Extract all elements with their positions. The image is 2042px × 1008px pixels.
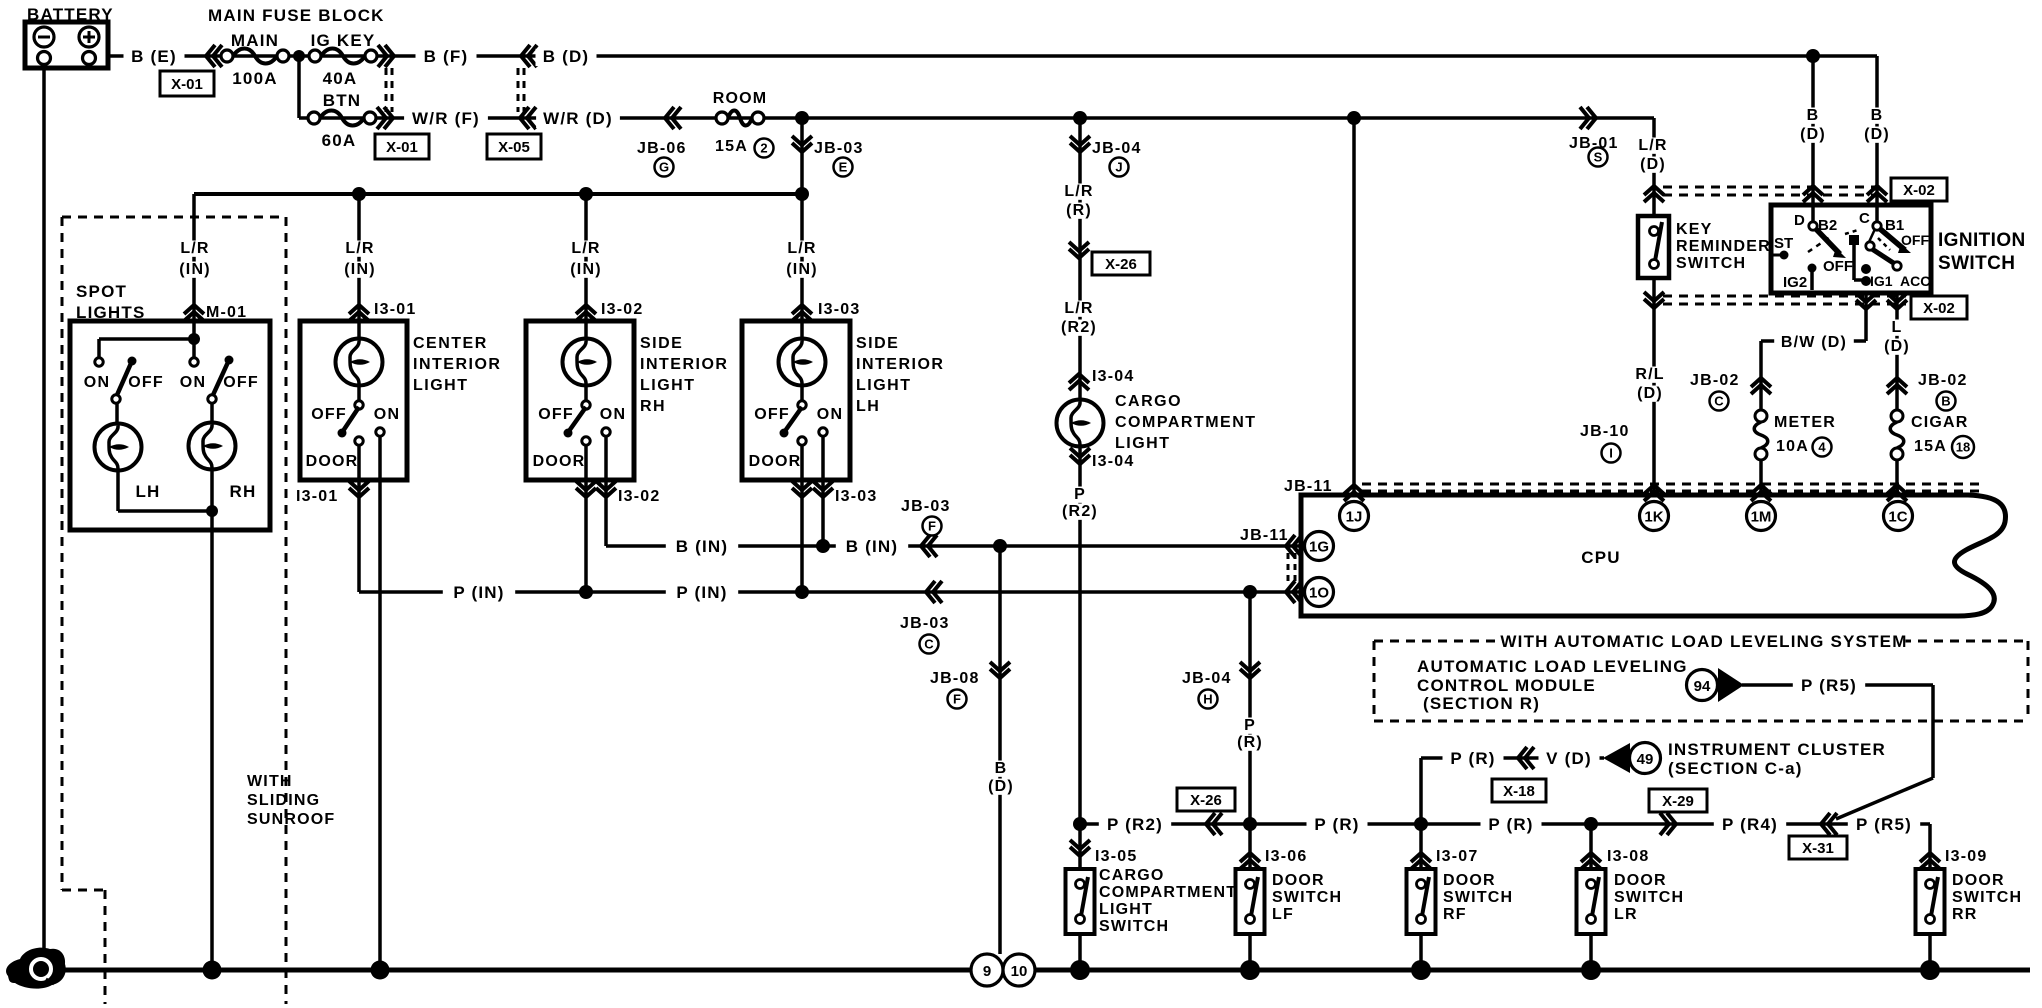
svg-text:B (IN): B (IN) [676, 537, 729, 556]
svg-text:18: 18 [1956, 440, 1970, 455]
svg-text:CPU: CPU [1581, 548, 1621, 567]
svg-text:ON: ON [600, 406, 626, 423]
circled F [923, 517, 942, 536]
svg-text:C: C [924, 637, 934, 652]
svg-text:G: G [659, 160, 669, 175]
svg-text:CENTER: CENTER [413, 335, 488, 352]
svg-text:L/R: L/R [180, 240, 209, 257]
junction arrow JB-01 (S) [1580, 107, 1596, 129]
dashed option box left edge [61, 217, 64, 890]
svg-text:10A: 10A [1776, 438, 1809, 455]
label W/R (F) [404, 111, 488, 128]
svg-text:DOOR: DOOR [749, 453, 802, 470]
connector chevron I3-02 bottom [576, 481, 596, 497]
spot RH switch to lamp [210, 403, 214, 423]
junction dot CPU 1J feed [1347, 111, 1361, 125]
label B (F) [416, 49, 477, 66]
svg-text:JB-03: JB-03 [901, 498, 951, 515]
fuse METER 10A [1754, 422, 1768, 448]
label L/R (IN) i3-01 [342, 241, 378, 257]
svg-text:P (R5): P (R5) [1801, 676, 1857, 695]
svg-text:JB-04: JB-04 [1092, 140, 1142, 157]
wire load leveling module P(R5) row [1742, 683, 1933, 687]
wire ignition IG1 to B/W(D) corner [1864, 292, 1868, 341]
connector chevron JB-11 1J [1344, 485, 1364, 501]
svg-text:M-01: M-01 [206, 304, 247, 321]
svg-text:I3-03: I3-03 [818, 301, 860, 318]
connector chevron X-26 upper [1069, 242, 1089, 258]
junction dot P(IN) x802 [795, 585, 809, 599]
circled C (jb-02) [1710, 392, 1729, 411]
svg-text:10: 10 [1011, 963, 1028, 980]
svg-text:DOOR: DOOR [306, 453, 359, 470]
connector chevron M-01 [184, 305, 204, 321]
door switch RF [1407, 869, 1436, 934]
fuse CIGAR 15A [1890, 422, 1904, 448]
svg-text:1G: 1G [1309, 539, 1329, 556]
svg-text:WITH: WITH [247, 773, 293, 790]
connector chevron X-31 [1821, 813, 1837, 835]
wire fuse block internal drop [297, 56, 301, 118]
svg-text:CONTROL MODULE: CONTROL MODULE [1417, 676, 1596, 695]
connector chevron I3-04 top [1069, 374, 1089, 390]
label P (R) row 2 [1481, 817, 1542, 834]
svg-text:SIDE: SIDE [640, 335, 683, 352]
svg-text:P (R2): P (R2) [1107, 815, 1163, 834]
wire B(IN) row y546 [606, 544, 1304, 548]
svg-text:JB-08: JB-08 [930, 670, 980, 687]
side LH switch [798, 401, 806, 409]
svg-text:LIGHT: LIGHT [413, 377, 469, 394]
svg-text:J: J [1115, 160, 1122, 175]
ignition terminal IG2 [1808, 264, 1817, 273]
wire P(R2)/P(R)/P(R4)/P(R5) row y824 [1080, 822, 1930, 826]
svg-text:D: D [1794, 212, 1805, 229]
ignition terminal C [1873, 222, 1881, 230]
connector X-18 box [1492, 779, 1546, 802]
junction dot B(D) [1806, 49, 1820, 63]
center interior light box [300, 321, 407, 480]
circled S [1589, 148, 1608, 167]
wire cargo lamp to P(R2) junction [1078, 447, 1082, 869]
svg-text:COMPARTMENT: COMPARTMENT [1099, 884, 1237, 901]
label L/R (IN) i3-03 [784, 241, 820, 257]
svg-text:LR: LR [1614, 906, 1638, 923]
svg-text:OFF: OFF [128, 374, 164, 391]
circled 2 [755, 139, 774, 158]
connector chevron I3-05 [1070, 840, 1090, 856]
svg-text:DOOR: DOOR [1443, 872, 1496, 889]
svg-text:(D): (D) [1884, 338, 1910, 355]
junction dot fuse block [293, 50, 305, 62]
circled 94 [1687, 670, 1718, 701]
svg-text:JB-02: JB-02 [1918, 372, 1968, 389]
wire door switch RF to ground bus [1419, 934, 1423, 970]
svg-text:C: C [1714, 394, 1724, 409]
circled H [1199, 690, 1218, 709]
svg-text:V (D): V (D) [1546, 749, 1592, 768]
svg-text:INTERIOR: INTERIOR [856, 356, 944, 373]
circled I [1602, 444, 1621, 463]
junction arrow JB-03 (F) [921, 535, 937, 557]
svg-text:OFF: OFF [223, 374, 259, 391]
svg-text:I3-02: I3-02 [601, 301, 643, 318]
fuse BTN 60A [320, 111, 364, 126]
circled 4 [1813, 438, 1832, 457]
wire battery B(E) feed row y56 [108, 54, 299, 58]
circled B (jb-02) [1937, 392, 1956, 411]
fuse ROOM 15A [728, 111, 752, 126]
connector chevron I3-03 bottom [792, 481, 812, 497]
junction dot room fuse output [795, 111, 809, 125]
wire door switch RR to ground bus [1928, 934, 1932, 970]
wire side LH DOOR drop to P(IN) [800, 445, 804, 592]
connector chevron X-02 key reminder lower [1644, 292, 1664, 308]
fuse MAIN 100A [233, 49, 277, 64]
label B/W (D) [1774, 335, 1854, 351]
svg-text:P (R): P (R) [1450, 749, 1495, 768]
junction dot bus x380 [371, 961, 390, 980]
connector X-01 box (right) [375, 134, 429, 159]
svg-text:MAIN: MAIN [231, 31, 279, 50]
ground symbol body earth [6, 948, 66, 989]
svg-text:LH: LH [135, 482, 160, 501]
ignition linkage dashes [1808, 237, 1830, 252]
circled C (jb-03) [920, 635, 939, 654]
connector X-01 box (left) [160, 71, 214, 96]
label V (D) [1539, 751, 1600, 768]
svg-text:P (R5): P (R5) [1856, 815, 1912, 834]
wire ground bus [30, 968, 2030, 973]
connector chevron I3-06 [1240, 853, 1260, 869]
svg-text:I3-02: I3-02 [618, 488, 660, 505]
wire L/R spot-light feed drop x802 upper [800, 118, 804, 405]
svg-text:JB-11: JB-11 [1240, 527, 1289, 544]
svg-text:OFF: OFF [311, 406, 347, 423]
wire B(D) drop to ignition switch terminal C [1875, 56, 1879, 226]
junction arrow JB-04 (H) [1240, 662, 1260, 678]
connector chevron JB-02 cigar [1887, 378, 1907, 394]
svg-text:OFF: OFF [1823, 258, 1853, 275]
cpu terminal 1J [1340, 502, 1369, 531]
svg-text:INTERIOR: INTERIOR [640, 356, 728, 373]
svg-text:JB-04: JB-04 [1182, 670, 1232, 687]
connector chevron to B(F) [378, 45, 394, 67]
svg-text:1J: 1J [1346, 509, 1363, 526]
svg-text:DOOR: DOOR [1272, 872, 1325, 889]
arrow triangle instrument cluster [1603, 743, 1630, 773]
svg-text:1M: 1M [1751, 509, 1772, 526]
label B (E) [124, 49, 185, 66]
label B (IN) left [666, 539, 738, 556]
junction dot bus x1591 [1581, 960, 1601, 980]
label L/R (D) [1635, 138, 1671, 154]
svg-text:9: 9 [983, 963, 991, 980]
spot LH switch [95, 358, 103, 366]
svg-text:RH: RH [230, 482, 257, 501]
connector X-05 box [487, 134, 541, 159]
svg-text:IGNITION: IGNITION [1938, 230, 2026, 251]
ignition terminal ST [1771, 254, 1782, 257]
connector chevron X-29 [1660, 813, 1676, 835]
svg-text:WITH AUTOMATIC LOAD LEVELING S: WITH AUTOMATIC LOAD LEVELING SYSTEM [1500, 632, 1907, 651]
connector chevron JB-11 1G [1286, 535, 1302, 557]
svg-text:X-31: X-31 [1802, 840, 1834, 857]
dashed option box - with sliding sunroof (top) [62, 216, 286, 219]
junction arrow JB-08 (F) [990, 662, 1010, 678]
ignition rotor circle [1866, 242, 1874, 250]
svg-text:DOOR: DOOR [1952, 872, 2005, 889]
svg-text:COMPARTMENT: COMPARTMENT [1115, 414, 1257, 431]
svg-text:BTN: BTN [323, 91, 362, 110]
wire center interior light drop x359 [357, 194, 361, 405]
label B (D) drop [994, 761, 1009, 777]
svg-text:JB-03: JB-03 [900, 615, 950, 632]
connector X-02 box lower [1911, 296, 1967, 319]
svg-text:(R): (R) [1066, 202, 1092, 219]
svg-text:INSTRUMENT CLUSTER: INSTRUMENT CLUSTER [1668, 740, 1886, 759]
svg-text:15A: 15A [1914, 438, 1947, 455]
svg-text:60A: 60A [322, 131, 357, 150]
wire side interior RH drop x586 [584, 194, 588, 405]
svg-text:JB-10: JB-10 [1580, 423, 1630, 440]
cpu terminal 1O [1305, 578, 1334, 607]
wire interior light feed bus y194 [194, 192, 802, 196]
svg-text:(D): (D) [1800, 126, 1826, 143]
svg-text:C: C [1859, 210, 1870, 227]
svg-text:IG2: IG2 [1783, 274, 1807, 291]
svg-text:B: B [1807, 107, 1820, 124]
svg-text:I3-03: I3-03 [835, 488, 877, 505]
wire L/R(D) key reminder switch drop [1652, 118, 1656, 216]
svg-text:(IN): (IN) [786, 261, 817, 278]
svg-text:P: P [1074, 486, 1086, 503]
wire B/W(D) horizontal [1761, 339, 1866, 343]
wire battery negative to body ground [42, 66, 46, 970]
svg-text:94: 94 [1694, 678, 1711, 695]
svg-text:X-26: X-26 [1105, 256, 1137, 273]
svg-text:B (F): B (F) [424, 47, 469, 66]
circled 49 [1630, 743, 1661, 774]
connector JB-11 dashed rows above CPU [1362, 483, 1986, 486]
svg-text:(D): (D) [1864, 126, 1890, 143]
svg-text:L/R: L/R [1638, 137, 1667, 154]
label L/R (R) [1061, 184, 1097, 200]
connector chevron X-02 ig1 [1856, 293, 1876, 309]
svg-text:JB-03: JB-03 [814, 140, 864, 157]
wire B(D) drop to ignition switch terminal D [1811, 56, 1815, 226]
dashed option box left lower leg [104, 890, 107, 1004]
connector chevron X-26 lower [1206, 813, 1222, 835]
wire side RH ON drop to B(IN) [604, 436, 608, 546]
lamp center interior [336, 339, 383, 386]
connector X-01 dashed pair [385, 68, 388, 112]
svg-text:1C: 1C [1888, 509, 1907, 526]
svg-text:SWITCH: SWITCH [1938, 253, 2015, 274]
svg-text:I3-04: I3-04 [1092, 453, 1134, 470]
svg-text:JB-11: JB-11 [1284, 478, 1333, 495]
connector X-02 box upper [1891, 178, 1947, 201]
connector X-31 box [1789, 836, 1847, 859]
svg-text:P (IN): P (IN) [676, 583, 727, 602]
circled J [1110, 158, 1129, 177]
svg-text:(D): (D) [1640, 156, 1666, 173]
side interior light RH box [526, 321, 634, 480]
ignition terminal IG1 [1861, 264, 1871, 274]
svg-text:METER: METER [1774, 414, 1836, 431]
lamp side interior RH [563, 339, 610, 386]
svg-text:(SECTION R): (SECTION R) [1423, 694, 1540, 713]
svg-text:(D): (D) [988, 778, 1014, 795]
svg-text:P (IN): P (IN) [453, 583, 504, 602]
svg-text:X-18: X-18 [1503, 783, 1535, 800]
wire spot RH lamp to ground bus [210, 469, 214, 970]
ignition terminal square [1849, 235, 1859, 245]
svg-text:ON: ON [84, 374, 110, 391]
svg-text:W/R (D): W/R (D) [543, 109, 613, 128]
svg-text:REMINDER: REMINDER [1676, 238, 1771, 255]
svg-text:JB-02: JB-02 [1690, 372, 1740, 389]
svg-text:L/R: L/R [787, 240, 816, 257]
wire ignition ACC to L(D) / CIGAR fuse [1895, 292, 1899, 411]
wire door switch LF to ground bus [1248, 934, 1252, 970]
label P (R5) module [1793, 678, 1865, 695]
connector chevron JB-10 [1644, 485, 1664, 501]
svg-text:(IN): (IN) [179, 261, 210, 278]
label P (R) instrument [1443, 751, 1504, 768]
label P (R2) row [1099, 817, 1171, 834]
lamp spot RH [189, 423, 236, 470]
junction dot bus x1080 [1070, 960, 1090, 980]
junction dot P(IN) x586 [579, 585, 593, 599]
svg-text:SWITCH: SWITCH [1272, 889, 1342, 906]
junction dot P(R) takeoff [1243, 585, 1257, 599]
wire door switch LR drop [1589, 824, 1593, 869]
svg-text:R/L: R/L [1635, 366, 1664, 383]
svg-text:LIGHT: LIGHT [1115, 435, 1171, 452]
lamp cargo compartment light [1057, 400, 1104, 447]
svg-text:(R): (R) [1237, 734, 1263, 751]
svg-text:(SECTION C-a): (SECTION C-a) [1668, 759, 1803, 778]
connector X-29 box [1649, 789, 1707, 812]
label R/L (D) [1632, 367, 1668, 383]
svg-text:I3-01: I3-01 [374, 301, 416, 318]
svg-text:(R2): (R2) [1062, 503, 1098, 520]
svg-text:E: E [839, 160, 848, 175]
battery [25, 22, 108, 68]
svg-text:SIDE: SIDE [856, 335, 899, 352]
svg-text:RF: RF [1443, 906, 1467, 923]
connector X-26 box lower [1177, 788, 1235, 811]
label L/R (R2) [1061, 301, 1097, 317]
svg-text:(R2): (R2) [1061, 319, 1097, 336]
junction dot B(IN) x823 [816, 539, 830, 553]
spot junction dot [188, 333, 200, 345]
svg-text:OFF: OFF [754, 406, 790, 423]
label W/R (D) [536, 111, 620, 128]
svg-text:LIGHT: LIGHT [640, 377, 696, 394]
svg-text:ON: ON [374, 406, 400, 423]
connector chevron X-02 key reminder [1644, 186, 1664, 202]
wire CIGAR fuse to CPU 1C [1895, 459, 1899, 492]
connector chevron X-02 b2 [1803, 186, 1823, 202]
ignition blade ACC [1872, 249, 1895, 264]
junction dot B(D) takeoff [993, 539, 1007, 553]
svg-text:B (E): B (E) [131, 47, 177, 66]
cpu terminal 1C [1884, 502, 1913, 531]
label WITH AUTOMATIC LOAD LEVELING SYSTEM [1503, 634, 1906, 651]
wire side RH DOOR drop to P(IN) [584, 445, 588, 592]
connector chevron JB-11 1O [1286, 581, 1302, 603]
svg-text:B (IN): B (IN) [846, 537, 899, 556]
label B (D) ignition d [1806, 108, 1821, 124]
svg-text:X-05: X-05 [498, 139, 530, 156]
junction dot y194 x802 [795, 187, 809, 201]
connector chevron I3-01 top [349, 305, 369, 321]
connector chevron X-02 acc [1887, 293, 1907, 309]
svg-text:X-02: X-02 [1923, 300, 1955, 317]
label B (D) [536, 49, 597, 66]
connector X-26 box upper [1092, 252, 1150, 275]
svg-text:I3-07: I3-07 [1436, 848, 1478, 865]
svg-text:IG1: IG1 [1870, 273, 1893, 289]
cpu terminal 1K [1640, 502, 1669, 531]
svg-text:L/R: L/R [1064, 300, 1093, 317]
svg-text:B (D): B (D) [543, 47, 590, 66]
svg-text:49: 49 [1637, 751, 1654, 768]
wire center light DOOR to P(IN) [357, 445, 361, 592]
wire center light ON to ground bus [378, 436, 382, 970]
wire METER fuse to CPU 1M [1759, 459, 1763, 492]
junction dot bus x1930 [1920, 960, 1940, 980]
cpu terminal 1G [1305, 532, 1334, 561]
connector chevron I3-01 bottom [349, 481, 369, 497]
side interior light LH box [742, 321, 850, 480]
svg-text:LIGHT: LIGHT [856, 377, 912, 394]
ignition blade D-OFF [1815, 228, 1840, 254]
svg-text:L: L [1892, 319, 1903, 336]
svg-text:KEY: KEY [1676, 221, 1713, 238]
svg-text:L/R: L/R [571, 240, 600, 257]
door switch LF [1236, 869, 1265, 934]
svg-text:W/R (F): W/R (F) [412, 109, 480, 128]
svg-text:ROOM: ROOM [713, 90, 768, 107]
connector chevron to W/R(F) [377, 107, 393, 129]
ignition rotor link [1869, 229, 1875, 242]
svg-text:L/R: L/R [1064, 183, 1093, 200]
connector chevron I3-03 top [792, 305, 812, 321]
connector chevron I3-07 [1411, 853, 1431, 869]
svg-text:I3-08: I3-08 [1607, 848, 1649, 865]
junction dot cargo feed [1073, 111, 1087, 125]
wire cargo switch to ground bus [1078, 934, 1082, 970]
svg-text:B: B [995, 760, 1008, 777]
spot LH switch to lamp [115, 403, 119, 424]
cargo compartment light switch [1066, 869, 1095, 934]
spot lights box [70, 321, 270, 530]
circled 18 [1952, 436, 1974, 458]
svg-text:(IN): (IN) [570, 261, 601, 278]
connector chevron I3-08 [1581, 853, 1601, 869]
svg-text:IG KEY: IG KEY [311, 31, 376, 50]
door switch RR [1916, 869, 1945, 934]
svg-text:I3-09: I3-09 [1945, 848, 1987, 865]
junction dot y194 x359 [352, 187, 366, 201]
wire B(D) drop from B(IN) junction to ground circles [998, 546, 1002, 954]
connector X-02 upper dashed rows [1663, 186, 1886, 189]
svg-text:P: P [1244, 717, 1256, 734]
svg-text:SUNROOF: SUNROOF [247, 811, 335, 828]
